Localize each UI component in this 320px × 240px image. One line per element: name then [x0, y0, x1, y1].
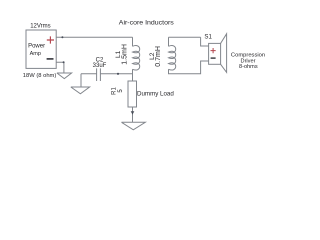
svg-text:Amp: Amp [30, 51, 41, 57]
svg-text:8-ohms: 8-ohms [239, 64, 258, 70]
svg-text:Air-core Inductors: Air-core Inductors [119, 19, 174, 26]
svg-text:R1: R1 [112, 87, 118, 95]
svg-text:S1: S1 [204, 33, 212, 40]
svg-text:33uF: 33uF [93, 63, 107, 69]
svg-text:Power: Power [28, 44, 45, 50]
svg-text:12Vrms: 12Vrms [30, 24, 50, 30]
svg-text:1.5mH: 1.5mH [121, 44, 128, 65]
svg-text:Dummy Load: Dummy Load [137, 91, 174, 98]
svg-text:0.7mH: 0.7mH [155, 46, 162, 67]
svg-text:18W (8 ohm): 18W (8 ohm) [23, 73, 57, 79]
